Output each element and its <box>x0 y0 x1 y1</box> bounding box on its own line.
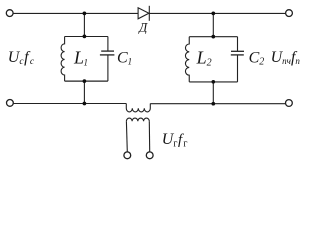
svg-text:Д: Д <box>138 20 148 34</box>
